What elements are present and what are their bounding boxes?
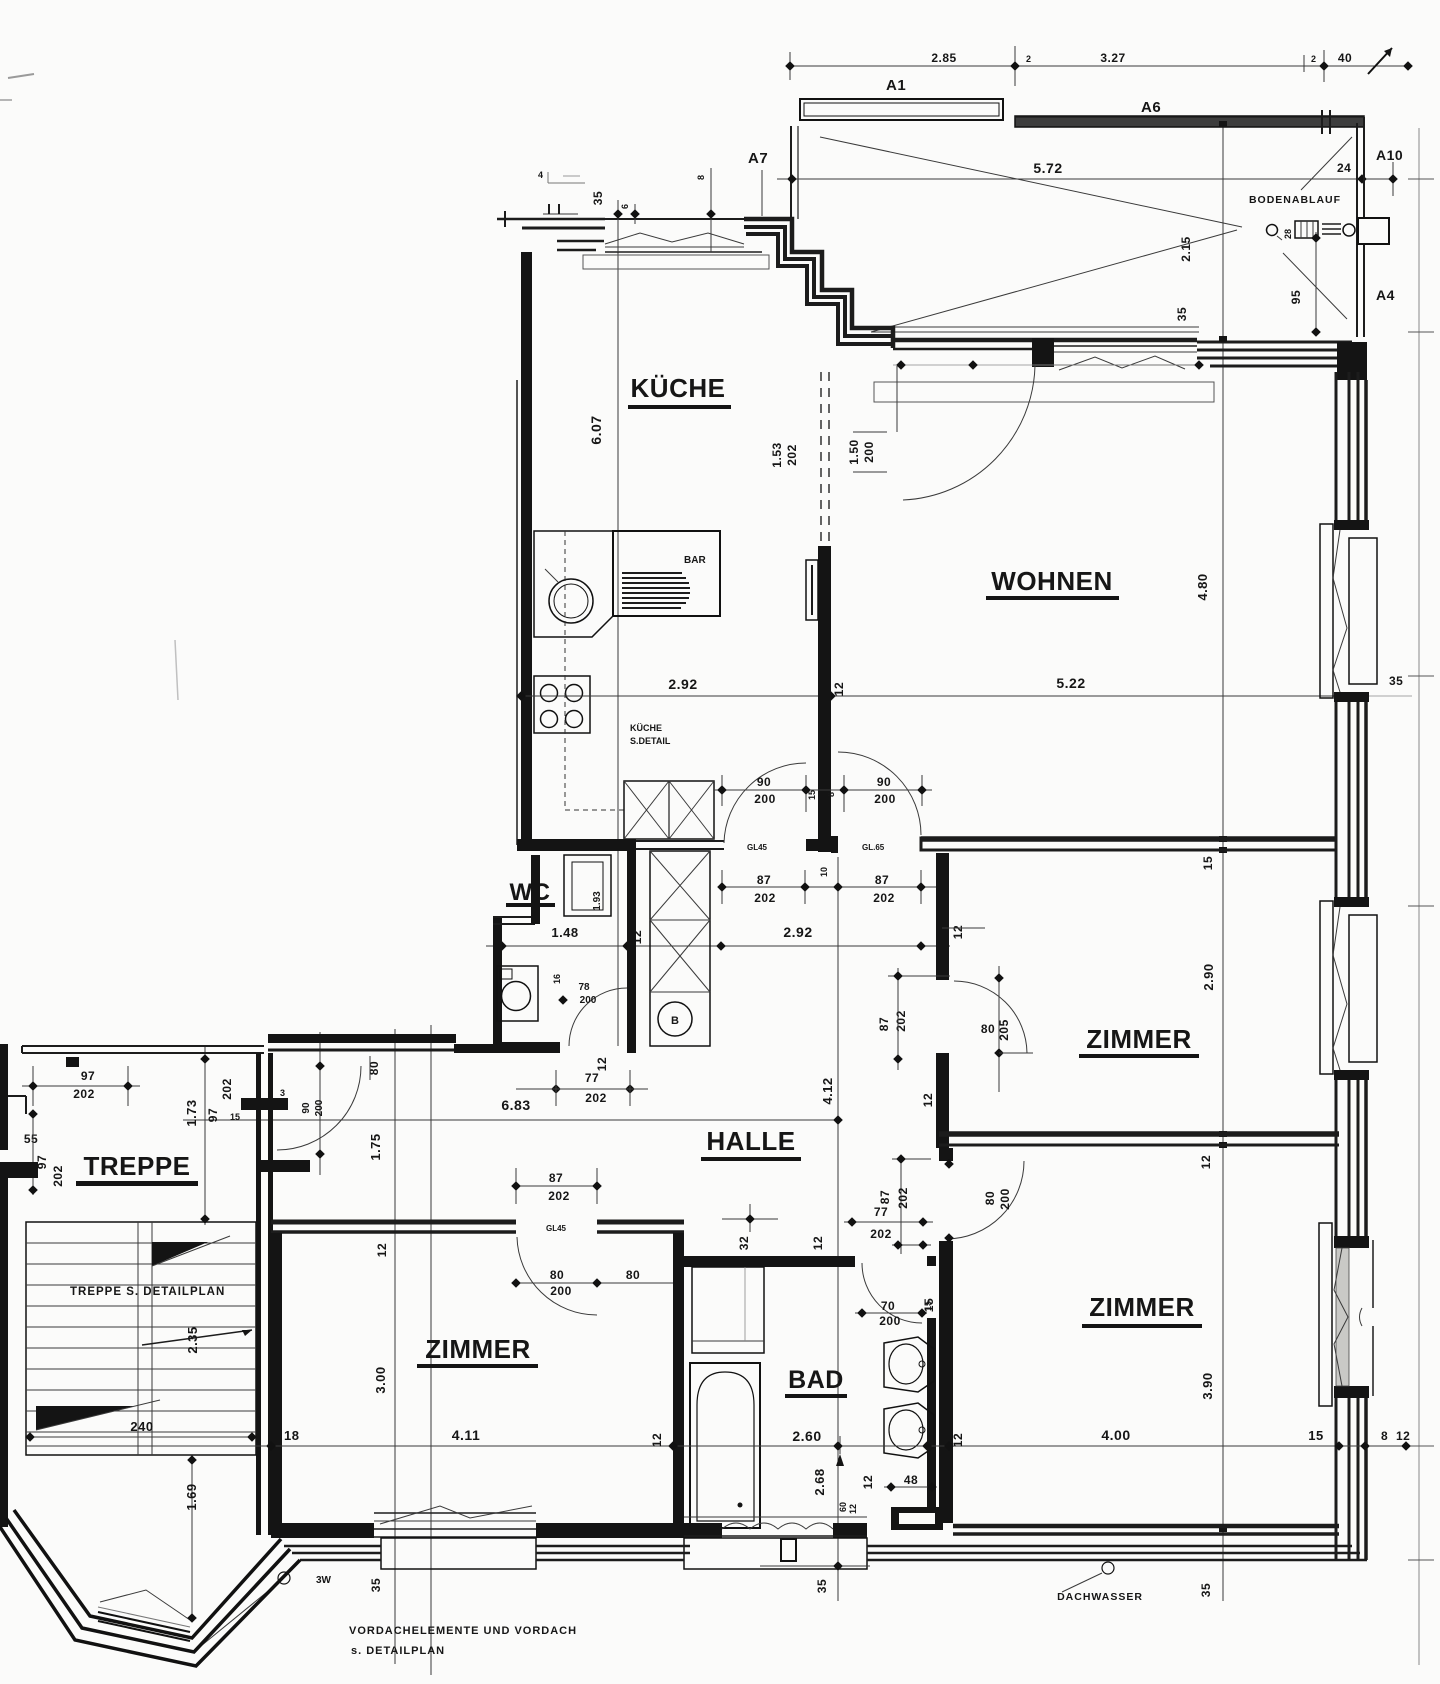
door dim row 87/202 left (719, 886, 949, 888)
svg-text:240: 240 (130, 1419, 153, 1434)
window zimmer bottom with shutter (1319, 1223, 1332, 1406)
bar counter (613, 531, 720, 616)
svg-text:2.60: 2.60 (792, 1428, 821, 1444)
svg-text:202: 202 (51, 1165, 65, 1187)
door dims 87/202 above (516, 1185, 597, 1187)
svg-text:80: 80 (550, 1268, 564, 1282)
svg-text:70: 70 (881, 1299, 895, 1313)
svg-text:15: 15 (922, 1298, 936, 1312)
svg-text:97: 97 (81, 1069, 95, 1083)
wohnen north wall band (893, 338, 1197, 343)
svg-text:202: 202 (220, 1078, 234, 1100)
svg-text:GL45: GL45 (747, 843, 768, 852)
A10 junction box (1358, 218, 1389, 244)
interior window sill rectangle kitchen (583, 255, 769, 269)
svg-text:202: 202 (870, 1227, 892, 1241)
wc north wall step (493, 916, 535, 918)
bottom dim line 4.11 / 2.60 / 4.00 (26, 1445, 1410, 1447)
outer wall lines bottom (284, 1545, 381, 1548)
grid ticks right margin (1408, 178, 1434, 180)
bad door arc (862, 1263, 922, 1323)
bathtub (690, 1363, 760, 1528)
SECTION:HALLE (183, 1057, 935, 1161)
svg-text:12: 12 (595, 1057, 609, 1071)
label DACHWASSER with leader (1102, 1562, 1114, 1574)
svg-text:87: 87 (549, 1171, 563, 1185)
dim 97/202 top left (22, 1085, 140, 1087)
window head caps (1334, 520, 1369, 530)
kitchen east wall dashed opening (820, 372, 822, 546)
faint scan specks top left (8, 74, 34, 78)
dimension line top 2.85/2/3.27/2/40 (788, 65, 1410, 67)
window sill lines right of post (1054, 345, 1197, 347)
svg-text:2.35: 2.35 (185, 1326, 200, 1353)
svg-text:200: 200 (862, 441, 876, 463)
stove with 4 burners (534, 676, 590, 733)
svg-text:48: 48 (904, 1473, 918, 1487)
svg-text:4: 4 (538, 170, 543, 180)
kitchen south wall (517, 839, 636, 851)
svg-text:6: 6 (620, 204, 630, 209)
svg-text:40: 40 (1338, 51, 1352, 65)
svg-text:200: 200 (998, 1188, 1012, 1210)
svg-text:87: 87 (878, 1190, 892, 1204)
svg-text:2.92: 2.92 (668, 676, 697, 692)
terrace step edge rectangle (874, 382, 1214, 402)
duct shaft (891, 1507, 943, 1530)
vestibule south wall (256, 1160, 310, 1172)
svg-text:VORDACHELEMENTE UND VORDACH: VORDACHELEMENTE UND VORDACH (349, 1625, 577, 1637)
bad shelf (692, 1267, 764, 1353)
svg-text:87: 87 (877, 1017, 891, 1031)
worktop dashed line (564, 531, 566, 810)
svg-text:202: 202 (785, 444, 799, 466)
SECTION:MIDDIMS (486, 752, 1337, 951)
junction nodes on reference line (1219, 121, 1227, 127)
terrace slope line from SW corner (871, 230, 1237, 332)
stairs box (26, 1222, 256, 1455)
window sill box left (381, 1538, 536, 1569)
svg-text:16: 16 (552, 974, 562, 984)
SECTION:TOPWALLS (0, 74, 1367, 700)
door arc wohnen entrance (903, 366, 1035, 500)
svg-text:HALLE: HALLE (706, 1126, 795, 1156)
door dims 80/200 below (516, 1282, 684, 1284)
porch wall lines left of kitchen window (497, 218, 605, 221)
zimmer bl east wall (673, 1233, 684, 1531)
wall wc-closet (627, 851, 636, 1053)
SECTION:ZMID (877, 853, 1339, 1169)
svg-text:TREPPE S. DETAILPLAN: TREPPE S. DETAILPLAN (70, 1286, 225, 1298)
terrace slope line from NW corner (820, 137, 1242, 227)
svg-text:35: 35 (1389, 674, 1403, 688)
svg-text:3: 3 (280, 1088, 285, 1098)
faint porch marks (547, 172, 549, 183)
svg-text:202: 202 (894, 1010, 908, 1032)
zimmer bl west wall (271, 1233, 282, 1531)
washbasin upper (884, 1337, 934, 1392)
svg-text:87: 87 (875, 873, 889, 887)
dimension line 5.72 (777, 178, 1392, 180)
zimmer bl window (374, 1512, 536, 1514)
svg-text:ZIMMER: ZIMMER (1089, 1292, 1195, 1322)
awning element A1 box (800, 99, 1003, 120)
door arc GL65 (838, 752, 921, 835)
svg-text:1.48: 1.48 (551, 925, 578, 940)
reference line vertical x395 (394, 1029, 396, 1664)
closet column with X (650, 851, 710, 1046)
svg-text:90: 90 (757, 775, 771, 789)
svg-text:55: 55 (24, 1132, 38, 1146)
svg-text:1.69: 1.69 (184, 1483, 199, 1510)
svg-text:12: 12 (1199, 1155, 1213, 1169)
svg-text:ZIMMER: ZIMMER (1086, 1024, 1192, 1054)
window dim ticks 35/6/8 (617, 200, 619, 252)
svg-text:3.90: 3.90 (1200, 1372, 1215, 1399)
terrace left edge (790, 126, 792, 219)
grid line right margin (1418, 128, 1420, 1665)
kitchen west wall (521, 252, 532, 845)
svg-text:8: 8 (696, 175, 706, 180)
svg-text:80: 80 (367, 1061, 381, 1075)
svg-text:A10: A10 (1376, 147, 1403, 163)
svg-text:12: 12 (375, 1243, 389, 1257)
svg-text:200: 200 (754, 792, 776, 806)
svg-text:35: 35 (815, 1579, 829, 1593)
svg-text:12: 12 (1396, 1429, 1410, 1443)
boiler cupboard (564, 855, 611, 916)
svg-text:2.15: 2.15 (1179, 236, 1193, 261)
svg-text:90: 90 (877, 775, 891, 789)
treppe east wall lower (256, 1172, 261, 1535)
svg-text:1.50: 1.50 (847, 439, 861, 464)
window wohnen (1320, 524, 1333, 698)
svg-text:WOHNEN: WOHNEN (991, 566, 1112, 596)
svg-text:12: 12 (951, 1433, 965, 1447)
svg-text:GL.65: GL.65 (862, 843, 885, 852)
svg-text:GL45: GL45 (546, 1224, 567, 1233)
wall post (1032, 338, 1054, 367)
wc west wall (493, 916, 502, 1049)
north arrow mark (1368, 48, 1392, 74)
zimmer mid west wall upper (936, 853, 949, 980)
bad south wall stubs (684, 1523, 722, 1538)
svg-text:202: 202 (585, 1091, 607, 1105)
svg-text:8: 8 (1381, 1429, 1388, 1443)
bad south wall window (684, 1516, 867, 1518)
treppe exterior west wall (0, 1044, 8, 1150)
reference line vertical x431 (430, 1025, 432, 1675)
svg-text:s. DETAILPLAN: s. DETAILPLAN (351, 1645, 445, 1657)
svg-text:35: 35 (591, 191, 605, 205)
svg-text:B: B (671, 1015, 679, 1027)
floor drain symbol (1267, 225, 1278, 236)
SECTION:KITCHEN (516, 252, 1412, 852)
svg-text:2: 2 (1026, 54, 1031, 64)
svg-text:4.80: 4.80 (1195, 573, 1210, 600)
SECTION:WC (493, 851, 710, 1053)
dim ticks below wohnen wall (893, 364, 1199, 366)
svg-text:12: 12 (832, 682, 846, 696)
small circle 3W mark (278, 1572, 290, 1584)
door arc GL45 kitchen (724, 763, 806, 843)
svg-text:A1: A1 (886, 77, 906, 94)
svg-text:2.85: 2.85 (931, 51, 956, 65)
svg-text:202: 202 (548, 1189, 570, 1203)
washbasin lower (884, 1403, 934, 1458)
window sill box bad (684, 1538, 867, 1569)
wohnen west wall solid (818, 546, 831, 852)
svg-text:15: 15 (1308, 1428, 1323, 1443)
wc south wall (493, 1042, 560, 1053)
svg-text:15: 15 (1201, 856, 1215, 870)
svg-text:18: 18 (284, 1428, 299, 1443)
svg-text:TREPPE: TREPPE (83, 1151, 190, 1181)
SECTION:WOHNEN (986, 121, 1377, 1560)
svg-text:1.75: 1.75 (368, 1133, 383, 1160)
stair treads (26, 1242, 256, 1244)
entrance door ticks (543, 213, 578, 215)
svg-text:A7: A7 (748, 150, 768, 167)
svg-text:35: 35 (1175, 307, 1189, 321)
stair stringers (137, 1222, 139, 1455)
svg-text:15: 15 (230, 1112, 240, 1122)
kitchen X cupboard (624, 781, 714, 839)
svg-text:1.93: 1.93 (592, 891, 603, 911)
svg-text:24: 24 (1337, 161, 1351, 175)
zimmer bl north wall (271, 1220, 516, 1225)
svg-text:35: 35 (369, 1578, 383, 1592)
svg-text:2.92: 2.92 (783, 924, 812, 940)
svg-text:12: 12 (921, 1093, 935, 1107)
zimmer br south wall (953, 1524, 1339, 1529)
svg-text:77: 77 (874, 1205, 888, 1219)
reference line vertical x192 bay (191, 1455, 193, 1622)
door arc zimmer br (946, 1161, 1024, 1239)
SECTION:REFLINES (192, 118, 1434, 1675)
svg-text:202: 202 (873, 891, 895, 905)
terrace inner south edge (871, 326, 1199, 328)
svg-text:80: 80 (983, 1191, 997, 1205)
SECTION:TERRACE (748, 46, 1413, 337)
SECTION:BAD (684, 1154, 943, 1530)
inner face line with door opening (1035, 364, 1197, 366)
svg-text:200: 200 (314, 1099, 325, 1116)
reference line vertical x320 vestibule (319, 1032, 321, 1175)
east exterior wall quad line (1335, 372, 1338, 1560)
awning band A6 (1015, 116, 1364, 127)
dimension line 2.92 / 5.22 (521, 695, 1350, 697)
svg-text:3.00: 3.00 (373, 1366, 388, 1393)
bay window walls (0, 1527, 300, 1666)
svg-text:1.73: 1.73 (184, 1099, 199, 1126)
svg-text:2.90: 2.90 (1201, 963, 1216, 990)
svg-text:80: 80 (981, 1022, 995, 1036)
svg-text:BAD: BAD (788, 1366, 844, 1394)
svg-text:32: 32 (737, 1236, 751, 1250)
svg-text:2.68: 2.68 (812, 1468, 827, 1495)
svg-text:12: 12 (811, 1236, 825, 1250)
svg-text:80: 80 (626, 1268, 640, 1282)
halle dim row line (183, 1119, 838, 1121)
svg-text:202: 202 (73, 1087, 95, 1101)
svg-text:200: 200 (550, 1284, 572, 1298)
reference line vertical x1223 (1222, 118, 1224, 1601)
SECTION:ZBR (922, 1148, 1339, 1534)
svg-text:95: 95 (1289, 290, 1303, 304)
stair arrow (142, 1330, 252, 1345)
bad east wall (927, 1318, 936, 1530)
kitchen top window (605, 218, 744, 220)
svg-text:200: 200 (580, 995, 597, 1006)
terrace slope line from SE corner (1283, 253, 1347, 319)
svg-text:12: 12 (861, 1475, 875, 1489)
SECTION:TREPPE (0, 1034, 495, 1535)
svg-text:12: 12 (848, 1504, 858, 1514)
door arc GL45 (517, 1237, 597, 1315)
bay window glazing (98, 1612, 190, 1632)
svg-text:6.07: 6.07 (588, 415, 604, 444)
boiler circle B (658, 1002, 692, 1036)
svg-text:200: 200 (879, 1314, 901, 1328)
vestibule door arc (277, 1066, 361, 1150)
svg-text:8: 8 (826, 792, 836, 797)
svg-text:4.12: 4.12 (820, 1077, 835, 1104)
NE corner wall block (1197, 341, 1352, 344)
dim row 1.48 / 2.92 (486, 945, 950, 947)
svg-text:78: 78 (578, 982, 590, 993)
kitchen counter with sink (534, 531, 613, 637)
reference line vertical x838 halle-bad (837, 857, 839, 1601)
svg-text:15: 15 (807, 790, 817, 800)
stair direction triangle down (36, 1406, 134, 1430)
stair direction triangle up (152, 1242, 208, 1266)
svg-text:4.11: 4.11 (452, 1427, 480, 1443)
window openings white clear (1330, 530, 1372, 692)
svg-text:WC: WC (510, 879, 551, 906)
SECTION:ZBL (271, 1168, 684, 1531)
zimmer bl south wall (271, 1523, 374, 1538)
reference line vertical x618 kitchen (617, 206, 619, 1046)
hall north wall thin part (22, 1045, 264, 1047)
wall connector to wc (454, 1044, 495, 1053)
vestibule dims 77/87/202 (900, 1157, 902, 1254)
svg-text:35: 35 (1199, 1583, 1213, 1597)
zimmer br west wall (939, 1148, 953, 1161)
sliding door pocket (806, 560, 818, 620)
bad north wall (684, 1256, 855, 1267)
treppe east wall upper (256, 1053, 261, 1161)
svg-text:202: 202 (754, 891, 776, 905)
terrace right edge wall (1356, 123, 1358, 337)
svg-text:2: 2 (1311, 54, 1316, 64)
reference line vertical x205 treppe (204, 1046, 206, 1225)
svg-text:A4: A4 (1376, 287, 1395, 303)
svg-text:10: 10 (819, 867, 829, 877)
wc door arc (569, 988, 627, 1046)
svg-text:KÜCHE: KÜCHE (631, 373, 726, 403)
svg-text:77: 77 (585, 1071, 599, 1085)
svg-text:60: 60 (838, 1502, 848, 1512)
stepped exterior wall NE of kitchen (744, 219, 893, 348)
svg-text:5.72: 5.72 (1033, 160, 1062, 176)
terrace slope line from NE corner (1301, 137, 1352, 190)
svg-text:DACHWASSER: DACHWASSER (1057, 1591, 1143, 1603)
svg-text:3.27: 3.27 (1100, 51, 1125, 65)
wc toilet (497, 966, 538, 1021)
door threshold black (241, 1098, 288, 1110)
svg-text:202: 202 (896, 1187, 910, 1209)
hall north wall thick block (268, 1034, 456, 1043)
svg-text:90: 90 (301, 1102, 312, 1114)
svg-text:12: 12 (650, 1433, 664, 1447)
svg-text:S.DETAIL: S.DETAIL (630, 736, 671, 746)
svg-text:BAR: BAR (684, 555, 706, 566)
svg-text:KÜCHE: KÜCHE (630, 723, 662, 733)
svg-text:4.00: 4.00 (1101, 1427, 1130, 1443)
svg-text:6.83: 6.83 (501, 1097, 530, 1113)
svg-text:87: 87 (757, 873, 771, 887)
svg-text:5.22: 5.22 (1056, 675, 1085, 691)
zimmer mid south wall band (939, 1131, 1339, 1137)
svg-text:200: 200 (874, 792, 896, 806)
svg-text:97: 97 (206, 1108, 220, 1122)
svg-text:ZIMMER: ZIMMER (425, 1334, 531, 1364)
svg-text:28: 28 (1283, 229, 1293, 239)
svg-text:A6: A6 (1141, 99, 1161, 116)
window zimmer mid (1320, 901, 1333, 1074)
SECTION:BOTTOM (0, 1427, 1411, 1666)
window glazing zigzag (1059, 356, 1185, 370)
bar hatch grill (622, 572, 682, 574)
zimmer mid west wall lower (936, 1053, 949, 1148)
svg-text:3W: 3W (316, 1575, 332, 1586)
door arc zimmer mid (954, 981, 1027, 1053)
svg-text:BODENABLAUF: BODENABLAUF (1249, 194, 1341, 206)
wohnen south wall band with doors (831, 836, 838, 853)
svg-text:1.53: 1.53 (770, 442, 784, 467)
svg-text:12: 12 (951, 925, 965, 939)
